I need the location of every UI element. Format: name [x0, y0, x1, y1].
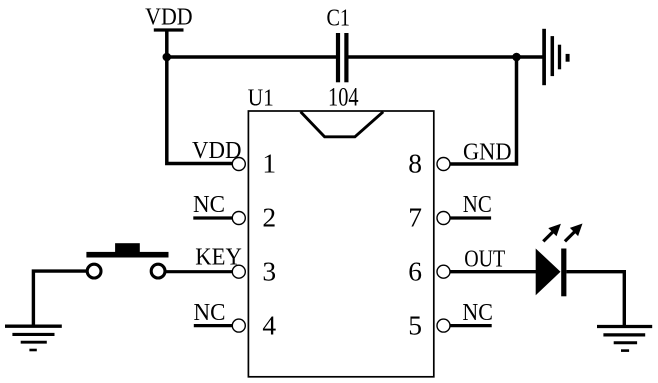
- LED cathode bar: [561, 249, 566, 297]
- pin 1 circle: [232, 158, 245, 171]
- pushbutton right terminal: [151, 264, 165, 278]
- pin 2 circle: [232, 212, 245, 225]
- svg-text:C1: C1: [326, 4, 350, 31]
- svg-text:3: 3: [262, 256, 276, 287]
- svg-text:NC: NC: [462, 299, 493, 326]
- svg-text:VDD: VDD: [145, 3, 193, 30]
- LED emission arrow 2: [565, 224, 583, 242]
- IC notch: [301, 112, 384, 137]
- svg-text:2: 2: [262, 202, 276, 233]
- svg-text:NC: NC: [463, 191, 492, 218]
- pin 7 stub wire: [450, 216, 491, 219]
- wire C1 to chassis ground: [349, 55, 543, 59]
- svg-text:1: 1: [262, 148, 276, 179]
- svg-text:7: 7: [408, 202, 422, 233]
- wire OUT pin 6 to LED: [450, 270, 537, 273]
- pushbutton actuator bar: [86, 252, 168, 258]
- pin 3 circle: [232, 265, 245, 278]
- svg-text:104: 104: [328, 83, 359, 112]
- pin 7 circle: [437, 212, 450, 225]
- junction at GND rail: [512, 53, 521, 62]
- wire button to KEY pin 3: [165, 270, 232, 273]
- wire VDD to C1: [167, 55, 337, 59]
- svg-text:4: 4: [262, 309, 276, 340]
- pin 2 stub wire: [193, 216, 232, 219]
- svg-text:5: 5: [408, 309, 422, 340]
- LED anode triangle: [536, 249, 561, 296]
- wire VDD vertical to pin1: [167, 31, 233, 164]
- wire button to left ground: [33, 271, 87, 326]
- wire GND rail down to pin8: [450, 57, 517, 164]
- svg-text:U1: U1: [248, 84, 274, 111]
- svg-text:OUT: OUT: [464, 245, 505, 272]
- chassis ground (top right): [544, 29, 568, 85]
- svg-text:KEY: KEY: [195, 244, 242, 271]
- pin 8 circle: [437, 158, 450, 171]
- svg-text:NC: NC: [194, 299, 226, 326]
- ground (right, earth): [597, 327, 652, 351]
- power symbol VDD: [145, 3, 193, 30]
- pin 4 circle: [232, 319, 245, 332]
- pin 4 stub wire: [194, 324, 233, 327]
- svg-text:NC: NC: [193, 191, 225, 218]
- LED emission arrow 1: [543, 224, 561, 242]
- IC U1 body: [248, 111, 433, 377]
- capacitor C1: [326, 4, 358, 111]
- svg-text:8: 8: [408, 148, 422, 179]
- pin 5 stub wire: [450, 324, 492, 327]
- wire LED to right ground: [566, 272, 624, 327]
- svg-text:6: 6: [408, 256, 422, 287]
- pin 6 circle: [437, 265, 450, 278]
- pin 5 circle: [437, 319, 450, 332]
- ground (left, earth): [5, 326, 62, 350]
- svg-text:GND: GND: [463, 138, 512, 165]
- junction at VDD rail: [163, 53, 172, 62]
- pushbutton button cap: [115, 243, 140, 252]
- svg-text:VDD: VDD: [192, 137, 242, 164]
- pushbutton left terminal: [87, 264, 101, 278]
